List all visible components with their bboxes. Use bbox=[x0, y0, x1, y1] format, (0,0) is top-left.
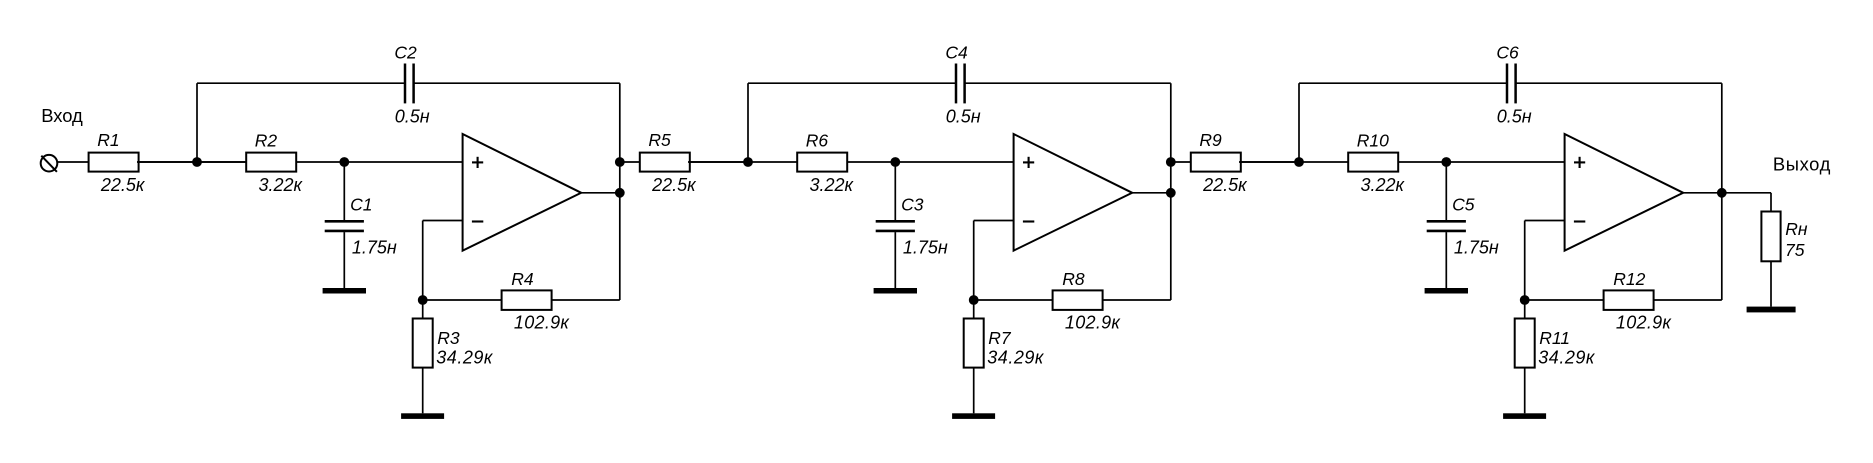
svg-text:R5: R5 bbox=[648, 130, 671, 150]
svg-text:34.29к: 34.29к bbox=[1538, 347, 1596, 367]
svg-text:0.5н: 0.5н bbox=[1497, 107, 1532, 127]
svg-text:C1: C1 bbox=[350, 194, 372, 214]
svg-text:0.5н: 0.5н bbox=[946, 107, 981, 127]
svg-text:R10: R10 bbox=[1357, 130, 1389, 150]
svg-text:Rн: Rн bbox=[1785, 219, 1808, 239]
svg-text:R2: R2 bbox=[255, 130, 278, 150]
svg-text:R6: R6 bbox=[806, 130, 829, 150]
svg-text:C2: C2 bbox=[394, 43, 417, 63]
svg-text:R1: R1 bbox=[97, 130, 119, 150]
svg-text:R4: R4 bbox=[511, 269, 534, 289]
svg-text:3.22к: 3.22к bbox=[259, 175, 304, 195]
svg-text:3.22к: 3.22к bbox=[810, 175, 855, 195]
svg-text:R7: R7 bbox=[988, 328, 1012, 348]
svg-text:R3: R3 bbox=[437, 328, 460, 348]
svg-text:R12: R12 bbox=[1613, 269, 1645, 289]
svg-text:1.75н: 1.75н bbox=[352, 238, 397, 258]
svg-text:R11: R11 bbox=[1539, 328, 1570, 348]
svg-text:C3: C3 bbox=[901, 194, 924, 214]
svg-text:34.29к: 34.29к bbox=[436, 347, 494, 367]
svg-text:3.22к: 3.22к bbox=[1361, 175, 1406, 195]
svg-text:Вход: Вход bbox=[41, 105, 83, 126]
svg-text:C4: C4 bbox=[945, 43, 968, 63]
svg-text:75: 75 bbox=[1785, 240, 1805, 260]
svg-text:22.5к: 22.5к bbox=[1202, 175, 1248, 195]
svg-text:1.75н: 1.75н bbox=[1454, 238, 1499, 258]
svg-text:22.5к: 22.5к bbox=[651, 175, 697, 195]
svg-text:1.75н: 1.75н bbox=[903, 238, 948, 258]
svg-text:34.29к: 34.29к bbox=[987, 347, 1045, 367]
svg-text:102.9к: 102.9к bbox=[1616, 313, 1673, 333]
svg-text:R9: R9 bbox=[1199, 130, 1222, 150]
svg-text:C6: C6 bbox=[1496, 43, 1519, 63]
svg-text:102.9к: 102.9к bbox=[1065, 313, 1122, 333]
svg-text:22.5к: 22.5к bbox=[100, 175, 146, 195]
svg-text:R8: R8 bbox=[1062, 269, 1085, 289]
svg-text:0.5н: 0.5н bbox=[395, 107, 430, 127]
svg-text:102.9к: 102.9к bbox=[514, 313, 571, 333]
svg-text:Выход: Выход bbox=[1773, 153, 1831, 174]
svg-text:C5: C5 bbox=[1452, 194, 1475, 214]
